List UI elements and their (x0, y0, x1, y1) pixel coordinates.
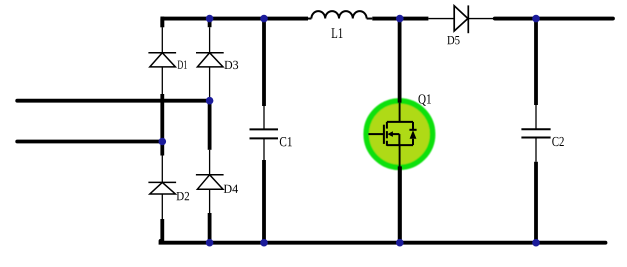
wire column D4 lower (209, 189, 211, 243)
wire column D2 lower (to bottom rail) (161, 194, 163, 243)
wire column C2 upper (534, 17, 538, 130)
label L1 (332, 28, 343, 38)
node bottom rail / C1 column (260, 239, 268, 247)
wire top rail left segment (161, 17, 308, 21)
body diode branch lower (412, 139, 414, 145)
wire column D3-D4 middle (209, 67, 211, 175)
wire top rail stub down at left corner (160, 17, 164, 28)
label C2 (552, 137, 564, 146)
transistor Q1 highlight circle (366, 101, 432, 167)
diode D1 (148, 53, 176, 67)
diode D3 (196, 53, 224, 67)
wire AC input upper (17, 99, 209, 103)
wire bottom rail (161, 241, 606, 243)
wire column C1 lower (263, 138, 265, 242)
node bottom rail / C2 column (532, 239, 540, 247)
node AC upper / D3 column (206, 97, 214, 105)
label D1 (178, 61, 187, 69)
drain contact horizontal (387, 121, 413, 123)
node bottom rail / D4 column (206, 239, 214, 247)
wire top rail right segment (495, 17, 613, 21)
diode D2 (148, 182, 176, 194)
wire thin lead from D5 cathode (469, 18, 495, 20)
wire column C2 lower (535, 138, 537, 243)
node top rail / C2 column (532, 15, 540, 23)
channel bar segment top (386, 122, 388, 129)
node top rail / Q1 drain (396, 15, 404, 23)
body diode cathode bar (409, 129, 416, 131)
body-source vertical (398, 134, 400, 145)
node top rail / D3 column (206, 15, 214, 23)
wire column D1 upper (top rail to D1) (160, 19, 164, 53)
capacitor C1 (250, 129, 279, 138)
body contact horizontal (393, 133, 400, 135)
label D5 (447, 36, 459, 44)
wire column D1-D2 middle (161, 67, 163, 182)
label Q1 (418, 94, 430, 105)
wire Q1 source (MOSFET to bottom rail) (399, 145, 401, 167)
op... mosfet Q1 symbol (368, 122, 416, 146)
body arrow (points into channel) (387, 131, 393, 137)
diode D4 (196, 175, 224, 189)
wire column C1 upper (262, 17, 266, 130)
wire thin lead to D5 anode (428, 18, 454, 20)
wire top rail middle thick segment (372, 17, 428, 21)
channel bar segment bottom (386, 141, 388, 146)
node top rail / C1 column (260, 15, 268, 23)
node AC lower / D1 column (159, 138, 167, 146)
body diode branch upper (412, 122, 414, 130)
label C1 (280, 137, 292, 146)
label D2 (177, 192, 190, 200)
gate bar (383, 125, 385, 144)
gate lead (368, 133, 384, 135)
capacitor C2 (521, 129, 550, 137)
wire AC input lower (17, 140, 162, 144)
node bottom rail / Q1 source (396, 239, 404, 247)
channel bar segment middle (386, 131, 388, 138)
body diode triangle (410, 130, 417, 139)
diode D5 (454, 5, 468, 33)
wire column D3 upper (208, 19, 212, 53)
label D3 (224, 61, 238, 69)
inductor L1 (308, 11, 372, 18)
label D4 (224, 185, 238, 193)
source contact horizontal (387, 144, 413, 146)
wire Q1 drain (top rail to MOSFET) (398, 17, 402, 103)
